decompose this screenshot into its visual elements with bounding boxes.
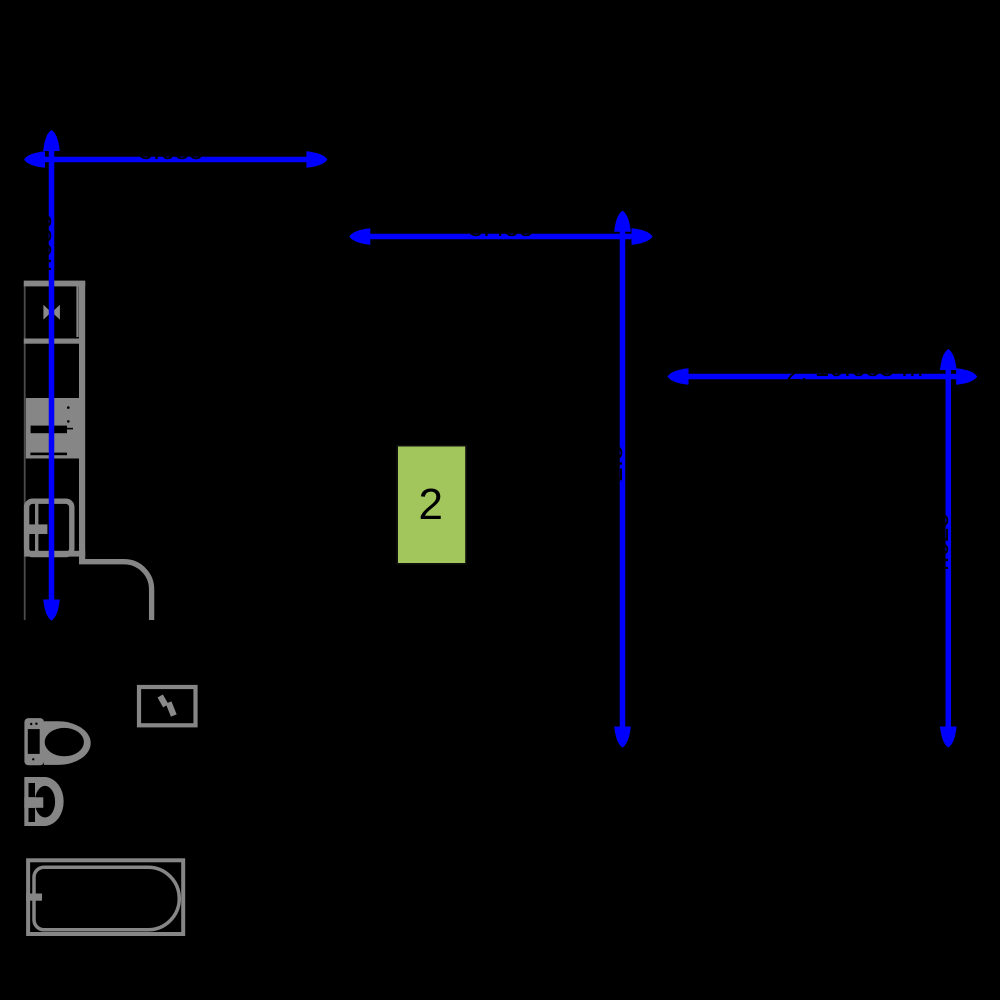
svg-text:4.025: 4.025	[924, 513, 954, 578]
bowtie valve symbol	[43, 305, 60, 320]
arrowhead A up	[43, 130, 60, 151]
svg-text:10.685 m: 10.685 m	[815, 352, 923, 382]
arrowhead C right	[632, 228, 653, 245]
dimension D: middle vertical arrow	[614, 211, 631, 748]
appliance thin slot	[30, 453, 67, 456]
toilet bowl outer	[44, 721, 91, 765]
arrowhead E right	[956, 368, 977, 385]
electrical box	[139, 687, 196, 725]
wire	[363, 234, 639, 240]
toilet tank window	[28, 729, 40, 754]
toilet tank	[24, 718, 44, 765]
arrowhead F up	[940, 349, 957, 370]
toilet lid dots	[30, 723, 32, 725]
sink outline	[27, 501, 72, 554]
dimension A: left vertical arrow	[43, 130, 60, 621]
sink bottom bar	[24, 551, 85, 557]
kitchen group	[24, 281, 152, 620]
arrowhead D down	[614, 727, 631, 748]
washbasin	[24, 777, 63, 826]
arrowhead D up	[614, 211, 631, 232]
bathtub inner tub	[34, 867, 179, 930]
appliance dot 1	[67, 406, 70, 409]
arrowhead C left	[349, 228, 370, 245]
appliance handle slot	[31, 426, 67, 434]
bathtub tap tab	[26, 894, 42, 901]
sink crossbar	[26, 524, 48, 534]
appliance gray block	[26, 398, 79, 459]
arrowhead B left	[24, 151, 45, 168]
bathtub outer rect	[28, 860, 183, 934]
wire	[38, 157, 313, 163]
cabinet top bar	[24, 281, 85, 287]
counter right edge band	[79, 281, 85, 559]
squiggle	[160, 696, 166, 706]
toilet bowl inner	[45, 728, 84, 756]
wire	[620, 225, 626, 733]
svg-text:2.: 2.	[786, 357, 808, 387]
bathtub	[26, 860, 183, 934]
basin bowl	[35, 786, 55, 818]
arrowhead A down	[43, 600, 60, 621]
svg-text:2: 2	[419, 480, 443, 529]
svg-text:4.685: 4.685	[27, 214, 57, 279]
cabinet bottom bar	[24, 339, 79, 344]
wire	[681, 374, 963, 380]
dimension C: middle horizontal arrow	[349, 228, 652, 245]
electrical box frame	[139, 687, 196, 725]
basin notch top	[29, 783, 36, 797]
appliance dot 2	[67, 420, 70, 423]
counter bottom curve	[79, 562, 152, 620]
dimension F: right vertical arrow	[940, 349, 957, 748]
room label 2 green box	[397, 446, 466, 564]
svg-text:3.455: 3.455	[468, 212, 533, 242]
arrowhead F down	[940, 727, 957, 748]
sink divider	[35, 503, 38, 554]
dimension E: right horizontal arrow	[668, 368, 978, 385]
arrowhead B right	[306, 151, 327, 168]
squiggle dash 2	[169, 703, 174, 716]
cabinet inner door line	[76, 286, 78, 337]
arrowhead E left	[668, 368, 689, 385]
wall thin line left	[24, 281, 26, 620]
wire	[946, 363, 952, 733]
svg-text:3.685: 3.685	[138, 135, 203, 165]
basin notch bottom	[29, 808, 36, 822]
dimension B: top-left horizontal arrow	[24, 151, 327, 168]
wire	[49, 146, 55, 606]
basin tongue	[24, 797, 43, 808]
appliance slot extension	[67, 428, 73, 430]
toilet	[24, 718, 90, 765]
svg-text:2.8: 2.8	[598, 445, 628, 481]
